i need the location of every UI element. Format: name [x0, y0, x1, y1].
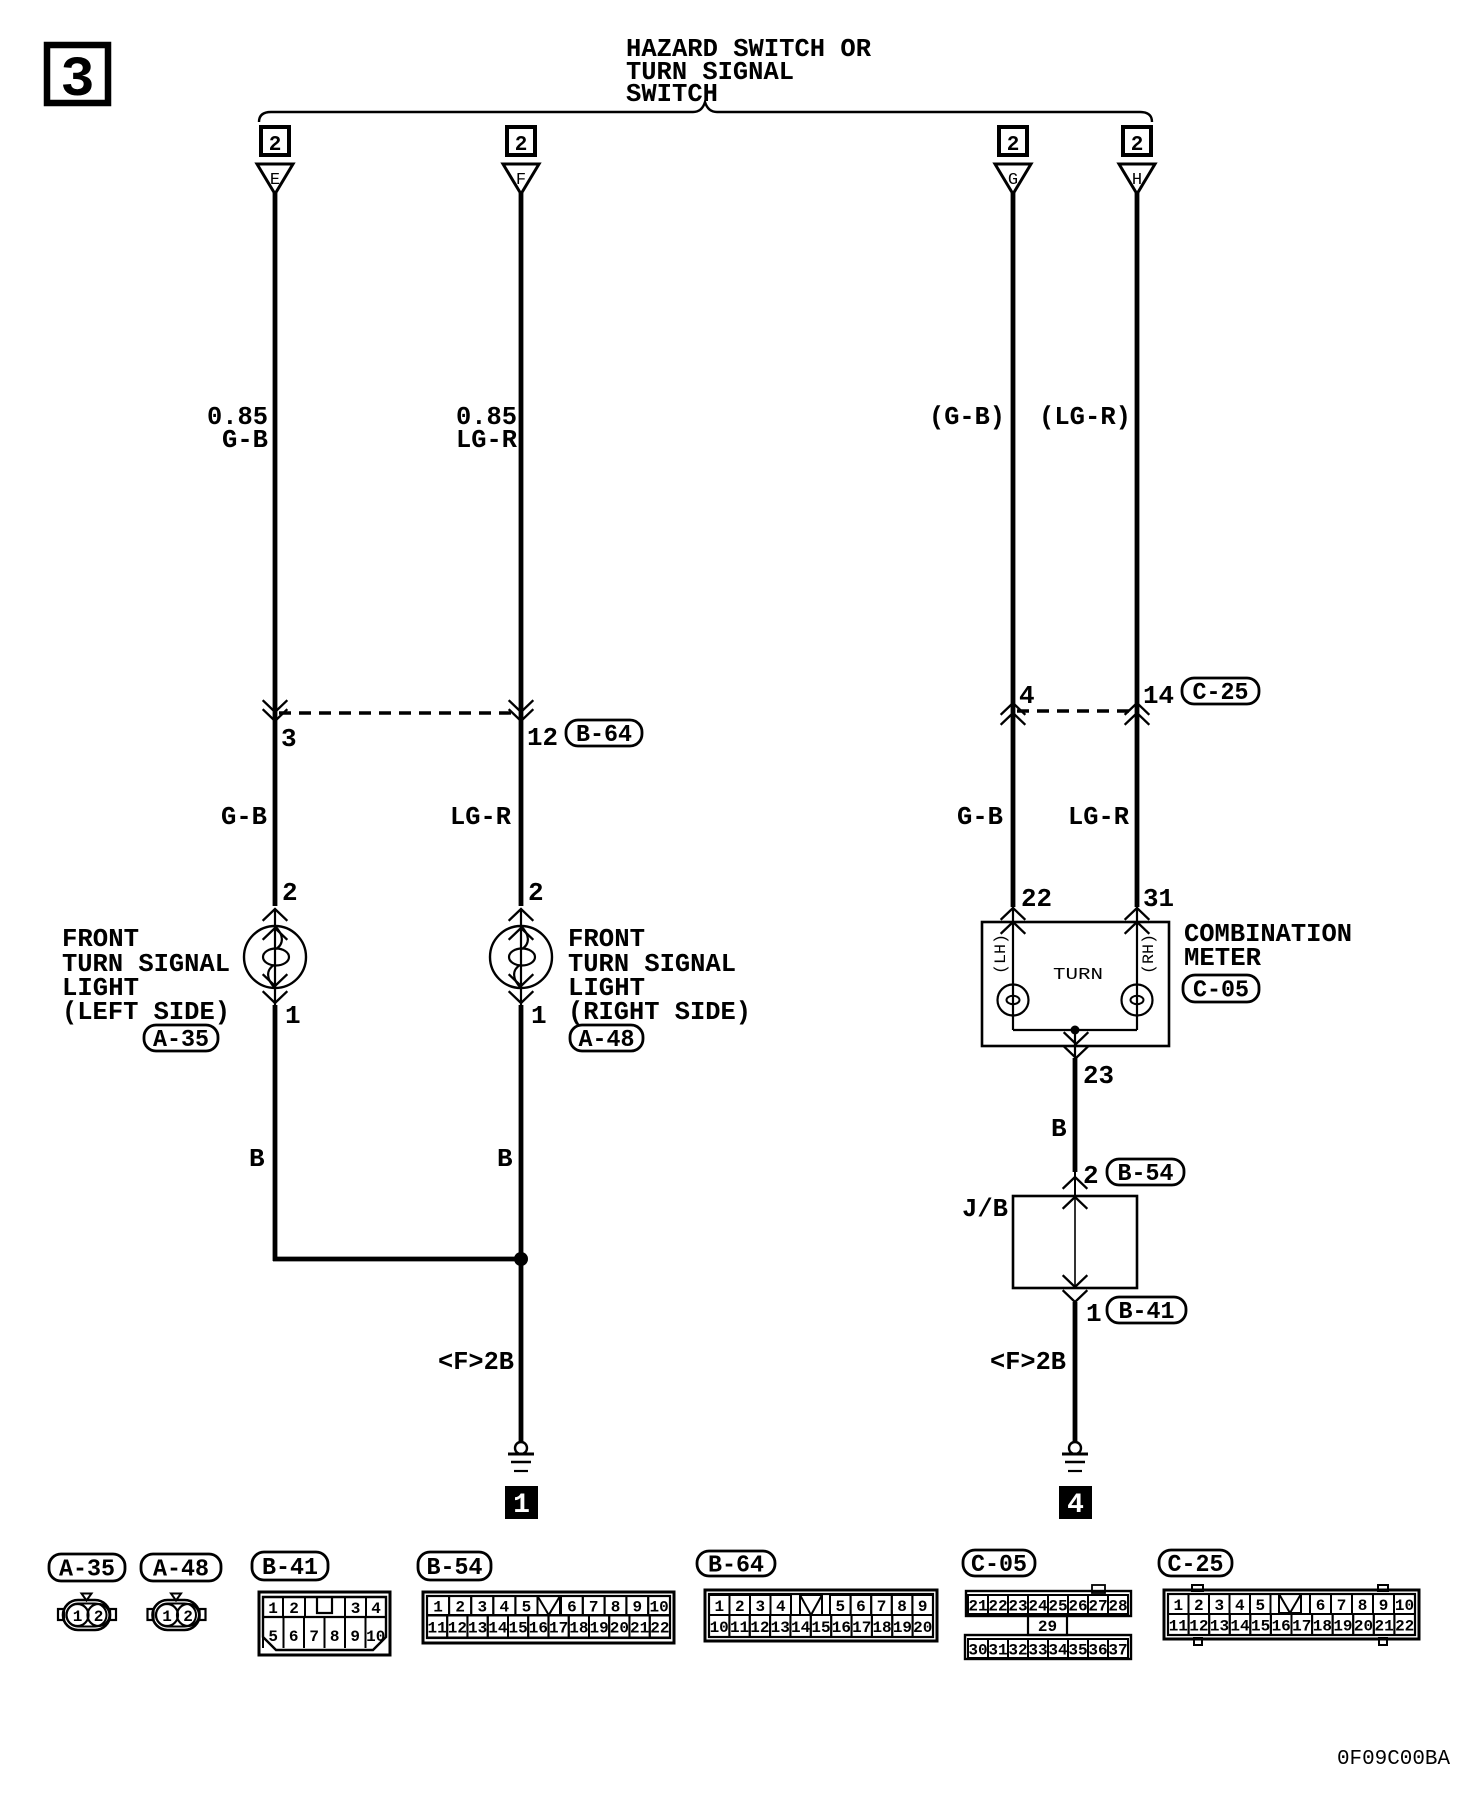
connector bubble C-05 (at meter)	[1183, 975, 1259, 1005]
wire H upper segment (LG-R)	[1135, 193, 1140, 907]
junction block J/B box	[1013, 1196, 1137, 1288]
svg-text:3: 3	[477, 1599, 487, 1617]
wire thin segment into J/B	[1074, 1172, 1076, 1198]
svg-text:7: 7	[1337, 1597, 1347, 1615]
svg-text:B: B	[249, 1144, 265, 1174]
wire label 0.85 G-B	[207, 402, 268, 455]
wire F lower segment (B)	[519, 1005, 524, 1442]
svg-text:1: 1	[162, 1608, 172, 1626]
svg-text:19: 19	[1333, 1618, 1352, 1636]
ground symbol (left)	[508, 1442, 534, 1471]
svg-text:17: 17	[852, 1619, 871, 1637]
connector bubble A-48 (at lamp)	[570, 1025, 643, 1054]
svg-text:C-05: C-05	[971, 1552, 1027, 1579]
wire through J/B	[1074, 1198, 1076, 1287]
ground reference box 1	[505, 1486, 538, 1521]
svg-text:8: 8	[1358, 1597, 1368, 1615]
svg-text:1: 1	[73, 1608, 83, 1626]
ground reference box 4	[1059, 1486, 1092, 1521]
connector label bubble A-48 (bottom)	[141, 1554, 221, 1584]
svg-text:11: 11	[1169, 1618, 1188, 1636]
svg-text:6: 6	[289, 1628, 299, 1646]
meter internal wire RH	[1136, 907, 1138, 1030]
junction node (meter bus)	[1071, 1026, 1080, 1035]
svg-text:24: 24	[1028, 1598, 1048, 1616]
svg-text:3: 3	[755, 1598, 765, 1616]
svg-text:A-48: A-48	[579, 1027, 635, 1054]
connector drawing A-48 (2-pin oval)	[148, 1594, 206, 1631]
svg-text:(LH): (LH)	[992, 934, 1010, 974]
svg-text:18: 18	[872, 1619, 891, 1637]
svg-text:2: 2	[269, 134, 282, 157]
svg-text:11: 11	[730, 1619, 749, 1637]
svg-text:(RIGHT SIDE): (RIGHT SIDE)	[568, 997, 751, 1027]
svg-text:13: 13	[468, 1620, 487, 1638]
connector B-41 terminal chevrons	[1064, 1276, 1087, 1302]
meter indicator lamp LH	[998, 985, 1029, 1016]
svg-text:<F>2B: <F>2B	[990, 1347, 1066, 1377]
svg-text:8: 8	[330, 1628, 340, 1646]
meter terminal chevrons pin 23	[1065, 1033, 1088, 1058]
svg-text:10: 10	[366, 1628, 385, 1646]
svg-text:J/B: J/B	[962, 1194, 1008, 1224]
meter output wire pin 23	[1074, 1030, 1076, 1060]
svg-text:C-25: C-25	[1168, 1552, 1224, 1579]
svg-text:G-B: G-B	[221, 802, 267, 832]
svg-text:18: 18	[1313, 1618, 1332, 1636]
svg-text:5: 5	[522, 1599, 532, 1617]
label COMBINATION METER	[1184, 919, 1352, 973]
connector drawing B-41 (10-pin)	[259, 1592, 390, 1655]
svg-text:B-54: B-54	[1118, 1161, 1174, 1188]
svg-text:1: 1	[531, 1001, 547, 1031]
svg-text:3: 3	[281, 724, 297, 754]
connector label bubble A-35 (bottom)	[49, 1554, 125, 1584]
svg-text:6: 6	[567, 1599, 577, 1617]
svg-text:29: 29	[1038, 1618, 1057, 1636]
svg-text:B-64: B-64	[576, 722, 632, 749]
svg-text:18: 18	[569, 1620, 588, 1638]
connector drawing B-54 (22-pin)	[423, 1592, 674, 1643]
connector B-54 terminal chevrons	[1064, 1177, 1087, 1208]
svg-text:34: 34	[1048, 1642, 1068, 1660]
svg-text:F: F	[516, 171, 526, 190]
connector pin-count square 2 (wire E)	[261, 127, 289, 157]
svg-text:8: 8	[611, 1599, 621, 1617]
wire E lower segment (B)	[273, 1005, 278, 1261]
svg-text:2: 2	[282, 878, 298, 908]
wire J/B-to-ground segment	[1073, 1302, 1078, 1442]
svg-text:36: 36	[1088, 1642, 1107, 1660]
svg-text:14: 14	[1230, 1618, 1250, 1636]
svg-text:9: 9	[350, 1628, 360, 1646]
svg-text:LG-R: LG-R	[1068, 802, 1129, 832]
connector drawing A-35 (2-pin oval)	[58, 1594, 116, 1631]
svg-text:2: 2	[1007, 134, 1020, 157]
svg-text:22: 22	[1021, 884, 1052, 914]
svg-text:9: 9	[918, 1598, 928, 1616]
title: HAZARD SWITCH OR TURN SIGNAL SWITCH	[626, 34, 871, 109]
svg-text:METER: METER	[1184, 943, 1261, 973]
svg-text:LG-R: LG-R	[456, 425, 517, 455]
svg-text:32: 32	[1008, 1642, 1027, 1660]
svg-text:C-05: C-05	[1193, 978, 1249, 1005]
svg-text:6: 6	[1316, 1597, 1326, 1615]
svg-text:(RH): (RH)	[1140, 934, 1158, 974]
wire meter-to-J/B segment (B)	[1073, 1058, 1078, 1172]
label: FRONT TURN SIGNAL LIGHT (LEFT SIDE)	[62, 924, 230, 1027]
svg-text:E: E	[270, 171, 280, 190]
svg-text:7: 7	[877, 1598, 887, 1616]
svg-text:20: 20	[610, 1620, 629, 1638]
svg-text:4: 4	[1067, 1490, 1084, 1521]
svg-text:1: 1	[714, 1598, 724, 1616]
terminal triangle H	[1119, 164, 1155, 194]
connector pin-count square 2 (wire F)	[507, 127, 535, 157]
svg-text:9: 9	[632, 1599, 642, 1617]
svg-text:22: 22	[988, 1598, 1007, 1616]
svg-text:TURN: TURN	[1053, 966, 1103, 985]
svg-text:2: 2	[1131, 134, 1144, 157]
lamp: front turn signal light (left side)	[244, 909, 306, 1006]
connector pin-count square 2 (wire G)	[999, 127, 1027, 157]
svg-text:27: 27	[1088, 1598, 1107, 1616]
svg-text:5: 5	[835, 1598, 845, 1616]
svg-text:28: 28	[1108, 1598, 1127, 1616]
svg-text:<F>2B: <F>2B	[438, 1347, 514, 1377]
svg-text:1: 1	[1173, 1597, 1183, 1615]
dashed connector line C-25	[1017, 709, 1133, 712]
svg-text:20: 20	[1354, 1618, 1373, 1636]
svg-text:12: 12	[448, 1620, 467, 1638]
connector C-25 terminal chevrons (wire H)	[1126, 703, 1149, 724]
svg-text:23: 23	[1083, 1061, 1114, 1091]
svg-text:2: 2	[735, 1598, 745, 1616]
svg-text:B-54: B-54	[427, 1555, 483, 1582]
wire G upper segment (G-B)	[1011, 193, 1016, 907]
svg-text:31: 31	[988, 1642, 1007, 1660]
svg-text:14: 14	[1143, 681, 1174, 711]
svg-text:2: 2	[455, 1599, 465, 1617]
connector bubble A-35 (at lamp)	[144, 1025, 218, 1054]
svg-text:10: 10	[649, 1599, 668, 1617]
svg-text:2: 2	[289, 1600, 299, 1618]
svg-text:1: 1	[268, 1600, 278, 1618]
svg-text:A-35: A-35	[59, 1557, 115, 1584]
wire F upper segment (0.85 LG-R)	[519, 193, 524, 906]
svg-text:1: 1	[433, 1599, 443, 1617]
meter indicator lamp RH	[1122, 985, 1153, 1016]
svg-text:13: 13	[1210, 1618, 1229, 1636]
svg-text:22: 22	[1395, 1618, 1414, 1636]
svg-text:4: 4	[371, 1600, 381, 1618]
connector B-64 terminal chevrons (wire E)	[264, 701, 287, 721]
meter internal wire LH	[1012, 907, 1014, 1030]
svg-text:17: 17	[1292, 1618, 1311, 1636]
label: FRONT TURN SIGNAL LIGHT (RIGHT SIDE)	[568, 924, 751, 1027]
svg-text:21: 21	[1374, 1618, 1393, 1636]
svg-text:16: 16	[832, 1619, 851, 1637]
svg-text:21: 21	[630, 1620, 649, 1638]
svg-text:15: 15	[1251, 1618, 1270, 1636]
svg-text:3: 3	[60, 49, 94, 113]
svg-text:12: 12	[1189, 1618, 1208, 1636]
connector pin-count square 2 (wire H)	[1123, 127, 1151, 157]
svg-text:H: H	[1132, 171, 1142, 190]
svg-text:2: 2	[1194, 1597, 1204, 1615]
svg-text:11: 11	[428, 1620, 447, 1638]
svg-text:B: B	[1051, 1114, 1067, 1144]
svg-text:26: 26	[1068, 1598, 1087, 1616]
svg-text:4: 4	[1019, 681, 1035, 711]
svg-text:10: 10	[1395, 1597, 1414, 1615]
svg-text:10: 10	[710, 1619, 729, 1637]
svg-text:(LG-R): (LG-R)	[1039, 402, 1131, 432]
svg-text:B-64: B-64	[708, 1553, 764, 1580]
svg-text:19: 19	[893, 1619, 912, 1637]
svg-text:13: 13	[771, 1619, 790, 1637]
svg-text:23: 23	[1008, 1598, 1027, 1616]
connector bubble B-64	[566, 720, 642, 749]
svg-text:37: 37	[1108, 1642, 1127, 1660]
junction node (wire F ground join)	[514, 1252, 528, 1266]
svg-text:12: 12	[527, 723, 558, 753]
svg-text:33: 33	[1028, 1642, 1047, 1660]
terminal triangle E	[257, 164, 293, 194]
svg-text:(G-B): (G-B)	[929, 402, 1005, 432]
svg-text:1: 1	[513, 1490, 530, 1521]
connector label bubble B-41 (bottom)	[252, 1552, 328, 1582]
svg-text:A-48: A-48	[153, 1557, 209, 1584]
connector label bubble B-64 (bottom)	[697, 1551, 775, 1580]
svg-text:14: 14	[488, 1620, 508, 1638]
svg-text:9: 9	[1379, 1597, 1389, 1615]
svg-text:12: 12	[750, 1619, 769, 1637]
svg-text:15: 15	[811, 1619, 830, 1637]
svg-text:0F09C00BA: 0F09C00BA	[1337, 1748, 1450, 1771]
connector bubble B-41 (below J/B)	[1107, 1297, 1186, 1326]
svg-text:5: 5	[268, 1628, 278, 1646]
svg-text:1: 1	[285, 1001, 301, 1031]
svg-text:7: 7	[309, 1628, 319, 1646]
svg-text:B-41: B-41	[1119, 1299, 1175, 1326]
svg-text:20: 20	[913, 1619, 932, 1637]
svg-text:22: 22	[650, 1620, 669, 1638]
svg-text:16: 16	[1272, 1618, 1291, 1636]
svg-text:(LEFT SIDE): (LEFT SIDE)	[62, 997, 230, 1027]
svg-text:5: 5	[1255, 1597, 1265, 1615]
svg-text:B-41: B-41	[262, 1555, 318, 1582]
svg-text:A-35: A-35	[153, 1027, 209, 1054]
svg-text:8: 8	[897, 1598, 907, 1616]
svg-text:31: 31	[1143, 884, 1174, 914]
connector B-64 terminal chevrons (wire F)	[510, 701, 533, 721]
wire label 0.85 LG-R	[456, 402, 517, 455]
combination meter box	[982, 922, 1169, 1046]
svg-text:2: 2	[515, 134, 528, 157]
dashed connector line B-64	[279, 711, 517, 714]
meter internal bus wire	[1013, 1029, 1137, 1031]
svg-text:LG-R: LG-R	[450, 802, 511, 832]
connector label bubble C-05 (bottom)	[963, 1550, 1035, 1579]
terminal triangle F	[503, 164, 539, 194]
ground joint wire E to F	[273, 1257, 521, 1262]
svg-text:7: 7	[589, 1599, 599, 1617]
svg-text:2: 2	[1083, 1161, 1099, 1191]
brace: hazard/turn signal switch connections	[259, 102, 1152, 122]
connector label bubble B-54 (bottom)	[418, 1552, 491, 1582]
svg-text:6: 6	[856, 1598, 866, 1616]
svg-text:2: 2	[94, 1608, 104, 1626]
svg-text:B: B	[497, 1144, 513, 1174]
svg-text:30: 30	[968, 1642, 987, 1660]
svg-text:2: 2	[183, 1608, 193, 1626]
svg-text:G-B: G-B	[222, 425, 268, 455]
svg-text:16: 16	[529, 1620, 548, 1638]
connector C-25 terminal chevrons (wire G)	[1002, 703, 1025, 724]
connector drawing C-25 (22-pin)	[1164, 1585, 1419, 1645]
svg-text:G: G	[1008, 171, 1018, 190]
svg-text:G-B: G-B	[957, 802, 1003, 832]
connector drawing B-64 (20-pin)	[705, 1590, 937, 1641]
lamp: front turn signal light (right side)	[490, 909, 552, 1006]
connector drawing C-05 (combination meter)	[965, 1585, 1131, 1660]
svg-text:C-25: C-25	[1193, 680, 1249, 707]
meter terminal chevrons pin 31	[1126, 908, 1149, 933]
meter terminal chevrons pin 22	[1002, 908, 1025, 933]
svg-text:14: 14	[791, 1619, 811, 1637]
svg-text:1: 1	[1086, 1299, 1102, 1329]
svg-text:4: 4	[776, 1598, 786, 1616]
svg-text:2: 2	[528, 878, 544, 908]
svg-text:19: 19	[590, 1620, 609, 1638]
svg-text:17: 17	[549, 1620, 568, 1638]
ground symbol (right)	[1062, 1442, 1088, 1471]
svg-text:3: 3	[351, 1600, 361, 1618]
svg-text:4: 4	[500, 1599, 510, 1617]
connector bubble C-25 (top)	[1182, 678, 1259, 707]
svg-text:35: 35	[1068, 1642, 1087, 1660]
svg-text:4: 4	[1235, 1597, 1245, 1615]
connector bubble B-54 (at J/B)	[1107, 1159, 1184, 1188]
terminal triangle G	[995, 164, 1031, 194]
svg-text:21: 21	[968, 1598, 987, 1616]
svg-text:25: 25	[1048, 1598, 1067, 1616]
sheet number box 3	[47, 45, 108, 113]
svg-text:15: 15	[509, 1620, 528, 1638]
svg-text:3: 3	[1214, 1597, 1224, 1615]
connector label bubble C-25 (bottom)	[1159, 1550, 1232, 1579]
wire E upper segment (0.85 G-B)	[273, 193, 278, 906]
